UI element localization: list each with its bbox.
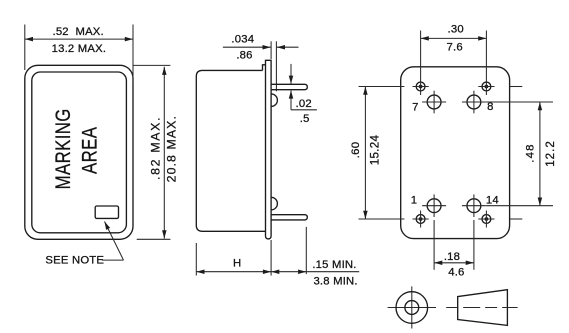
pin detail end view crosshair [388, 286, 436, 328]
svg-text:.034: .034 [231, 33, 254, 45]
pin 8 centerline stub [510, 86, 523, 88]
side view base plate [266, 60, 272, 239]
dim text .30 [448, 24, 464, 36]
svg-text:.18: .18 [444, 251, 460, 263]
dim leader tail under .15 MIN [306, 271, 359, 273]
dim text .034 [231, 33, 254, 45]
H dim extension lines [196, 240, 271, 276]
svg-text:7: 7 [412, 102, 418, 114]
standoff circle near pin 14 [462, 194, 486, 217]
svg-text:.30: .30 [448, 24, 464, 36]
top seal bump [271, 94, 277, 107]
svg-text:.86: .86 [236, 50, 252, 62]
row spacing extension lines .30 [421, 31, 487, 79]
pin length dimension line .15 MIN [271, 271, 306, 273]
svg-text:20.8 MAX.: 20.8 MAX. [164, 115, 178, 182]
dim text H [233, 257, 241, 269]
SEE NOTE leader line [102, 222, 124, 261]
svg-text:14: 14 [486, 195, 499, 207]
dim text 7.6 [447, 41, 463, 53]
pin length extension line [305, 227, 307, 274]
svg-text:.15 MIN.: .15 MIN. [312, 259, 356, 271]
dim text 15.24 rotated [369, 134, 382, 165]
svg-text:4.6: 4.6 [448, 267, 464, 279]
svg-text:1: 1 [411, 195, 417, 207]
dim text 12.2 rotated [544, 140, 557, 167]
pin span extension lines .60 [359, 87, 405, 220]
pin 8 hole [478, 78, 494, 95]
svg-text:15.24: 15.24 [369, 134, 382, 165]
side view body outline [196, 65, 265, 232]
width dimension line .52 MAX [25, 38, 133, 40]
left view body inner outline [32, 72, 127, 233]
H dimension line [196, 271, 271, 273]
svg-text:.82 MAX.: .82 MAX. [149, 116, 163, 180]
standoff pitch extension lines .18 [434, 220, 474, 270]
height dim extension lines (.82 MAX) [133, 65, 170, 239]
pin 14 centerline stub [510, 218, 523, 220]
standoff circle near pin 1 [422, 194, 446, 217]
marking area label line 2 AREA [79, 127, 102, 174]
dim text .52 MAX. [52, 26, 103, 38]
pin 7 hole [413, 78, 429, 95]
svg-text:8: 8 [487, 101, 493, 113]
pin number 7 [412, 102, 418, 114]
svg-text:.5: .5 [300, 113, 310, 125]
dim text .60 rotated [350, 142, 362, 159]
pin 1 hole [413, 211, 429, 228]
bottom pin side view [271, 215, 307, 220]
plate thickness extension lines .034 [271, 41, 276, 91]
note rectangle [95, 206, 118, 218]
marking area label line 1 MARKING [52, 108, 75, 189]
plate thickness dim arrows .034 [223, 46, 299, 48]
dim text 13.2 MAX. [52, 43, 107, 55]
svg-text:3.8 MIN.: 3.8 MIN. [313, 275, 357, 287]
pin detail cone centerline [446, 307, 517, 309]
svg-text:13.2 MAX.: 13.2 MAX. [52, 43, 107, 55]
svg-text:.02: .02 [296, 98, 312, 110]
dim text 20.8 MAX. rotated [164, 115, 178, 182]
pin number 8 [487, 101, 493, 113]
standoff circle near pin 8 [462, 91, 486, 114]
bottom view body outline [401, 67, 510, 239]
dim text .18 [444, 251, 460, 263]
dim text .15 MIN. [312, 259, 356, 271]
pin 14 hole [478, 211, 494, 228]
svg-text:SEE NOTE: SEE NOTE [45, 255, 104, 267]
dim text 4.6 [448, 267, 464, 279]
pin number 1 [411, 195, 417, 207]
dim text .02 [296, 98, 312, 110]
svg-text:7.6: 7.6 [447, 41, 463, 53]
dim text 3.8 MIN. [313, 275, 357, 287]
pin thickness dim .02 arrows [291, 64, 317, 110]
standoff pitch dimension line .18 [434, 262, 474, 264]
dim text .86 [236, 50, 252, 62]
pin number 14 [486, 195, 499, 207]
svg-text:.52 MAX.: .52 MAX. [52, 26, 103, 38]
pin detail end view inner circle [405, 301, 419, 315]
svg-text:AREA: AREA [79, 127, 102, 174]
pin detail end view outer circle [396, 292, 428, 324]
top pin side view [271, 84, 307, 89]
width dim extension lines (.52 MAX) [25, 25, 133, 85]
svg-text:H: H [233, 257, 241, 269]
svg-text:12.2: 12.2 [544, 140, 557, 167]
left view body outer outline [25, 65, 133, 239]
SEE NOTE text [45, 255, 104, 267]
standoff circle near pin 7 [422, 91, 446, 114]
svg-text:.48: .48 [524, 143, 536, 162]
bottom seal bump [271, 197, 277, 210]
svg-text:MARKING: MARKING [52, 108, 75, 189]
pin span dimension line .60 [364, 87, 366, 220]
dim text .5 [300, 113, 310, 125]
height dimension line .82 MAX [163, 67, 165, 239]
standoff span dimension line .48 [539, 102, 541, 206]
row spacing dimension line .30 [421, 37, 487, 39]
standoff span extension lines .48 [486, 102, 553, 206]
pin detail side view cone [458, 290, 508, 326]
dim text .82 MAX. rotated [149, 116, 163, 180]
svg-text:.60: .60 [350, 142, 362, 159]
dim text .48 rotated [524, 143, 536, 162]
